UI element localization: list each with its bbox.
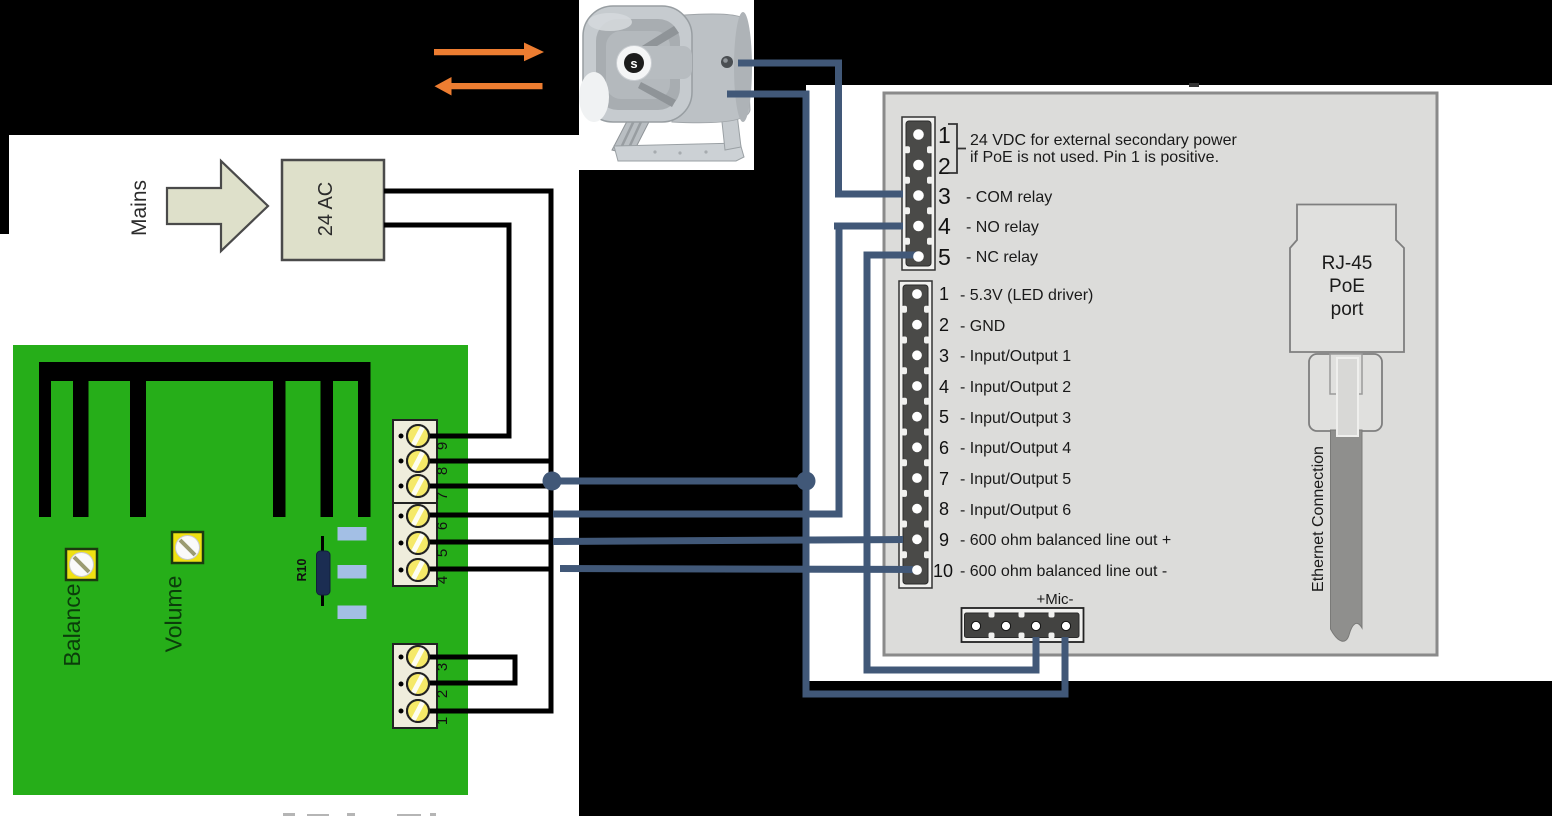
svg-text:6: 6 [939,438,949,458]
svg-text:3: 3 [434,663,451,671]
svg-text:Balance: Balance [59,583,85,666]
RJ-45 plug body [1309,354,1382,431]
green board screw pin 5 [407,532,429,554]
wire: green TB1 pin 4 lead [416,567,553,572]
svg-text:R10: R10 [295,558,309,581]
svg-text:RJ-45: RJ-45 [1322,253,1373,274]
capacitor C2 (blue) [338,565,367,579]
background black top-right band [806,0,1552,85]
wire: mains transformer upper output to green TB2 pin 1 [384,191,551,711]
svg-text:4: 4 [938,213,951,239]
green board screw pin 8 [407,450,429,472]
svg-text:1: 1 [938,122,951,148]
PCB trace finger 5 [321,380,334,517]
bracket base bar [614,143,744,161]
wire: J1 pin 4 NO relay to green TB1 pin 6 [553,511,843,518]
microphone connector housing [962,608,1084,642]
base screws [653,150,656,153]
trimpot RV2 Volume [172,532,203,563]
svg-text:5: 5 [939,407,949,427]
svg-text:- COM relay: - COM relay [966,189,1052,206]
svg-text:6: 6 [434,522,451,530]
orange arrow left (audio in) [435,77,543,96]
horn bell ring [583,6,692,122]
wire: speaker terminal B down to mic pin 4 [727,94,1065,694]
RJ-45 plug latch tab [1337,358,1358,436]
svg-text:if PoE is not used. Pin 1 is p: if PoE is not used. Pin 1 is positive. [970,149,1219,166]
svg-text:- 5.3V (LED driver): - 5.3V (LED driver) [960,287,1093,304]
horn driver body [672,14,750,123]
svg-text:PoE: PoE [1329,276,1365,297]
svg-text:7: 7 [434,492,451,500]
svg-text:4: 4 [939,377,949,397]
svg-text:- 600 ohm balanced line out -: - 600 ohm balanced line out - [960,563,1167,580]
svg-text:7: 7 [939,469,949,489]
PCB trace finger 4 [273,380,286,517]
ethernet cable [1331,430,1363,641]
bell highlight [579,72,609,122]
transformer T1 24 AC [282,160,384,260]
svg-text:Ethernet Connection: Ethernet Connection [1310,446,1327,592]
green board screw pin 3 [407,646,429,668]
junction node at pin 7 [543,472,562,491]
svg-text:3: 3 [939,346,949,366]
green board screw pin 9 [407,425,429,447]
RJ-45 jack tab inside plug [1330,354,1362,394]
trimpot RV1 Balance [66,549,97,580]
terminal block TB1b housing (pins 6-5-4) [393,503,437,586]
terminal strip J1 housing (5-pin) [902,117,935,270]
wire: green TB1 pin 5 to J2 pin 9 line out + [553,540,903,542]
svg-text:- Input/Output 1: - Input/Output 1 [960,348,1071,365]
svg-text:1: 1 [434,717,451,725]
RJ-45 PoE port jack [1290,205,1404,353]
svg-text:10: 10 [933,561,953,581]
svg-text:- Input/Output 6: - Input/Output 6 [960,502,1071,519]
svg-text:Volume: Volume [161,576,187,653]
J1 white pins [913,129,924,262]
PCB copper trace: top bus bar [39,362,371,381]
bracket knob [721,56,733,68]
wire: green TB1 pin 7 lead [416,484,549,489]
wire: J1 pin 5 NC relay to mic pin 3 [867,255,1036,670]
wire: junction link green TB1 pin 7 to speaker wire B [552,478,806,485]
wire: green TB1 pin 4 to J2 pin 10 line out - [560,569,913,570]
terminal strip J2 housing (10-pin) [899,281,932,588]
green board screw pin 7 [407,475,429,497]
svg-text:9: 9 [939,530,949,550]
svg-text:+Mic-: +Mic- [1036,591,1073,608]
capacitor C1 (blue) [338,527,367,541]
svg-text:2: 2 [938,153,951,179]
svg-text:- Input/Output 2: - Input/Output 2 [960,379,1071,396]
terminal strip J1 dark body [906,121,931,266]
svg-text:- GND: - GND [960,318,1005,335]
svg-text:- Input/Output 3: - Input/Output 3 [960,410,1071,427]
green board screw pin 4 [407,559,429,581]
J2 white pins [912,289,922,575]
bracket left arm ridges [612,104,654,155]
bracket right arm [716,64,741,150]
background black left sliver [0,135,9,234]
svg-text:9: 9 [434,442,451,450]
PCB trace finger 3 [130,380,146,517]
speaker LS1 (horn loudspeaker) [579,6,752,161]
orange arrow right (audio out) [434,43,544,62]
svg-text:port: port [1331,299,1364,320]
background black center column [579,0,806,816]
svg-text:- Input/Output 5: - Input/Output 5 [960,471,1071,488]
resistor R10 lead [321,536,324,606]
wire: jumper green TB2 pin 3 to pin 2 [416,657,515,683]
wire: green TB1 pin 5 lead [416,540,553,545]
cropped title dash above panel [1189,83,1199,87]
terminal block TB1a housing (pins 9-8-7) [393,420,437,503]
svg-text:5: 5 [938,244,951,270]
wire: green TB1 pin 8 tap to mains vertical [416,459,551,464]
horn vanes [642,26,679,52]
background black bottom-right band [806,681,1552,816]
wire: green TB1 pin 6 lead [416,513,553,518]
green board screw pin 6 [407,505,429,527]
green board screw pin 1 [407,700,429,722]
svg-text:2: 2 [434,690,451,698]
mic connector dark body [965,613,1080,638]
terminal strip J2 dark body [903,285,928,584]
svg-text:- 600 ohm balanced line out +: - 600 ohm balanced line out + [960,532,1171,549]
svg-text:1: 1 [939,284,949,304]
PCB trace finger 2 [73,380,89,517]
hub black logo [624,53,644,73]
svg-text:- Input/Output 4: - Input/Output 4 [960,440,1071,457]
device panel (SIP paging adapter) [884,93,1437,655]
junction node on speaker wire B [797,472,816,491]
svg-text:24 VDC for external secondary: 24 VDC for external secondary power [970,132,1237,149]
PCB trace finger 1 [39,362,51,517]
svg-text:8: 8 [939,499,949,519]
svg-text:- NC relay: - NC relay [966,249,1038,266]
terminal block TB2 housing (pins 3-2-1) [393,644,437,728]
Mains arrow symbol [167,161,268,251]
green board screw pin 2 [407,673,429,695]
PCB trace finger 6 [358,362,371,517]
svg-text:4: 4 [434,576,451,584]
svg-text:8: 8 [434,467,451,475]
svg-text:s: s [630,56,637,71]
wire: mains transformer lower output to green TB1 pin 9 [384,225,509,436]
bracket grouping J1 pins 1-2 [948,124,966,173]
svg-text:24 AC: 24 AC [315,182,337,236]
svg-text:Mains: Mains [128,180,151,236]
svg-text:- NO relay: - NO relay [966,219,1039,236]
cropped caption remnants bottom-left [283,813,436,816]
speaker LS1 photo background [579,0,754,170]
capacitor C3 (blue) [338,606,367,620]
svg-text:5: 5 [434,549,451,557]
svg-text:3: 3 [938,183,951,209]
mic connector white pins [971,621,1070,630]
svg-text:2: 2 [939,315,949,335]
TB1 pin hole dots [399,434,404,714]
amplifier PCB (green board) [13,345,468,795]
resistor R10 body [317,551,331,595]
hub white ring [617,46,652,81]
wire: speaker terminal A to J1 pin 3 COM relay [738,63,903,194]
background black top-left block [0,0,579,135]
center tube [634,46,692,79]
